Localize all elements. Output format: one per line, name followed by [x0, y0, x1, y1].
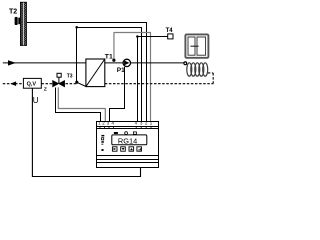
radiator coil	[184, 62, 208, 76]
wire Q.V to controller bottom	[32, 88, 140, 176]
display RG14	[112, 135, 147, 145]
svg-text:T4: T4	[166, 28, 174, 34]
sensor T4 box	[168, 34, 173, 39]
buttons row	[112, 147, 141, 151]
svg-text:Q,V: Q,V	[27, 81, 37, 87]
controller U1 RG14 housing	[97, 122, 159, 168]
node T3 dot on return	[75, 81, 78, 84]
return diagonal into exchanger corner	[77, 82, 86, 86]
supply pipe right	[105, 62, 184, 64]
left icon column	[101, 135, 104, 151]
wire T1 gray to terminal 1 right	[114, 33, 151, 124]
supply pipe left	[3, 62, 86, 64]
valve Z (motorised mixing valve)	[53, 73, 65, 87]
terminal numbers right 4 3 2 1	[135, 121, 153, 126]
svg-text:T2: T2	[9, 8, 17, 15]
svg-text:T1: T1	[105, 53, 113, 60]
return dashed line with arrow	[3, 73, 213, 84]
terminal ticks	[100, 126, 151, 128]
wire valve gray to terminal 2 left	[58, 87, 105, 123]
indicator marks above display	[114, 132, 136, 135]
Q.V box	[23, 78, 41, 88]
node T3 corner dot	[75, 26, 78, 29]
window	[185, 34, 208, 57]
heat exchanger square	[86, 59, 105, 87]
svg-text:U: U	[33, 96, 39, 105]
wire valve black to terminal 1 left	[56, 87, 101, 123]
sensor T2 (room sensor on wall)	[15, 17, 21, 25]
supply flow arrow	[8, 60, 16, 65]
svg-text:P1: P1	[117, 67, 125, 74]
terminal numbers left 1 2 3 4	[98, 121, 114, 126]
wire T3 sensor to terminal 3 right	[77, 28, 142, 124]
svg-text:RG14: RG14	[118, 136, 137, 145]
wire T2 to terminal 2 right	[27, 23, 147, 124]
svg-text:Z: Z	[44, 86, 47, 92]
node T4 corner dot	[136, 35, 139, 38]
svg-text:T3: T3	[67, 74, 73, 80]
wire T4 to terminal 4 right	[138, 37, 168, 124]
node T1 dot	[112, 59, 115, 62]
return flow arrow	[10, 81, 16, 86]
pump P1 (circulation pump)	[123, 59, 130, 66]
wire P1 to terminal 3 left	[110, 67, 125, 124]
wall (hatched)	[20, 2, 26, 45]
